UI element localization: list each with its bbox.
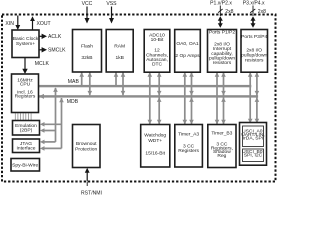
svg-text:P1.x/P2.x: P1.x/P2.x bbox=[210, 1, 232, 7]
pin XIN bbox=[5, 16, 20, 31]
svg-text:MCLK: MCLK bbox=[35, 61, 50, 67]
svg-text:RST/NMI: RST/NMI bbox=[81, 190, 102, 196]
svg-text:Watchdog: Watchdog bbox=[144, 132, 166, 138]
svg-text:(2BP): (2BP) bbox=[20, 128, 33, 134]
svg-text:VCC: VCC bbox=[82, 1, 93, 7]
svg-text:IrDA, SPI: IrDA, SPI bbox=[243, 136, 263, 142]
wire p3p4/usci-MDB column bbox=[256, 73, 258, 124]
svg-text:Flash: Flash bbox=[81, 44, 93, 50]
wire into jtag (from MAB) bbox=[44, 141, 56, 143]
wire ram-MDB bbox=[122, 73, 124, 96]
block Brownout Protection bbox=[73, 125, 101, 168]
svg-text:2x8: 2x8 bbox=[258, 9, 266, 15]
svg-text:resistors: resistors bbox=[213, 60, 232, 66]
MDB arrow into CPU bbox=[39, 94, 45, 99]
svg-text:2x8: 2x8 bbox=[225, 9, 233, 15]
svg-text:Interface: Interface bbox=[16, 146, 35, 152]
wire adc/wdt-MDB column bbox=[158, 73, 160, 125]
MDB bus bbox=[39, 95, 259, 97]
svg-text:SMCLK: SMCLK bbox=[48, 48, 66, 54]
block Basic Clock System+ bbox=[12, 30, 39, 58]
wire MCLK basic clock to CPU bbox=[24, 58, 26, 70]
wire into emulation (from MAB) bbox=[44, 130, 56, 132]
block Flash 32kB bbox=[73, 30, 102, 73]
svg-text:Registers: Registers bbox=[178, 148, 199, 154]
block Spy-Bi-Wire bbox=[11, 159, 40, 172]
svg-text:Protection: Protection bbox=[75, 146, 97, 152]
block USCI_B0 bbox=[243, 149, 264, 162]
svg-text:ACLK: ACLK bbox=[48, 34, 62, 40]
svg-text:DTC: DTC bbox=[152, 61, 163, 67]
block USCI bbox=[240, 123, 267, 166]
svg-text:XIN: XIN bbox=[5, 21, 14, 27]
svg-text:Ports P1/P2: Ports P1/P2 bbox=[209, 30, 235, 36]
svg-text:Basic Clock: Basic Clock bbox=[13, 36, 39, 42]
pin P1.x/P2.x (2x8) bbox=[210, 1, 234, 28]
pin VSS bbox=[106, 1, 117, 24]
svg-text:SPI, I2C: SPI, I2C bbox=[244, 153, 263, 159]
svg-text:15/16-Bit: 15/16-Bit bbox=[145, 151, 165, 157]
wire ram-MAB bbox=[115, 73, 117, 86]
wire oa/timerA3-MAB column bbox=[184, 73, 186, 125]
block Emulation (2BP) bbox=[13, 121, 40, 136]
chip boundary (dashed) bbox=[2, 15, 276, 182]
wire MDB to emulation/jtag (L2) bbox=[61, 98, 63, 148]
svg-text:VSS: VSS bbox=[106, 1, 117, 7]
svg-text:System+: System+ bbox=[16, 41, 35, 47]
svg-text:10-Bit: 10-Bit bbox=[151, 37, 164, 43]
svg-text:MDB: MDB bbox=[67, 99, 79, 105]
svg-text:1kB: 1kB bbox=[115, 55, 123, 61]
svg-text:pullup/down: pullup/down bbox=[241, 53, 267, 59]
block Ports P3/P4 bbox=[241, 30, 268, 73]
block Timer_A3 bbox=[175, 125, 203, 168]
wire into emulation (from MDB) bbox=[44, 123, 62, 125]
pin RST/NMI into brownout bbox=[81, 168, 102, 197]
svg-text:Timer_B3: Timer_B3 bbox=[211, 131, 232, 137]
svg-text:Timer_A3: Timer_A3 bbox=[178, 131, 199, 137]
svg-text:OA0, OA1: OA0, OA1 bbox=[176, 41, 199, 47]
svg-text:Ports P3/P4: Ports P3/P4 bbox=[241, 34, 267, 40]
MAB bus bbox=[39, 85, 252, 87]
block USCI_A0 bbox=[243, 126, 264, 147]
block Timer_B3 bbox=[208, 125, 236, 168]
svg-text:Reg: Reg bbox=[217, 153, 226, 159]
wire flash-MAB bbox=[81, 73, 83, 86]
wire into jtag (from MDB) bbox=[44, 147, 62, 149]
svg-text:XOUT: XOUT bbox=[37, 21, 51, 27]
svg-text:CPU: CPU bbox=[20, 82, 31, 88]
block Watchdog WDT+ bbox=[141, 125, 170, 168]
wire p3p4/usci-MAB column bbox=[249, 73, 251, 124]
wire p1p2/timerB3-MDB column bbox=[223, 73, 225, 125]
svg-text:Brownout: Brownout bbox=[76, 141, 97, 147]
block RAM 1kB bbox=[106, 30, 133, 73]
block CPU U1 bbox=[12, 74, 39, 113]
svg-text:32kB: 32kB bbox=[81, 55, 92, 61]
svg-text:resistors: resistors bbox=[245, 58, 264, 64]
svg-text:2x8 I/O: 2x8 I/O bbox=[246, 47, 262, 53]
block JTAG Interface bbox=[13, 139, 40, 153]
svg-text:RAM: RAM bbox=[114, 44, 125, 50]
wire flash-MDB bbox=[89, 73, 91, 96]
block OA0 OA1 op amps bbox=[175, 30, 201, 73]
svg-text:Registers: Registers bbox=[15, 94, 36, 100]
signal ACLK bbox=[39, 35, 43, 37]
svg-text:WDT+: WDT+ bbox=[148, 138, 162, 144]
block Ports P1/P2 bbox=[208, 30, 237, 73]
pin P3.x/P4.x (2x8) bbox=[243, 1, 266, 28]
CPU to emulation ribbon wires bbox=[15, 113, 31, 120]
svg-text:2 Op Amps: 2 Op Amps bbox=[175, 53, 200, 59]
wire oa/timerA3-MDB column bbox=[191, 73, 193, 125]
svg-text:MAB: MAB bbox=[68, 79, 80, 85]
wire p1p2/timerB3-MAB column bbox=[216, 73, 218, 125]
block ADC10 bbox=[144, 30, 170, 73]
wire MAB to emulation/jtag (L1) bbox=[55, 88, 57, 142]
signal SMCLK bbox=[39, 49, 43, 51]
pin VCC bbox=[82, 1, 93, 24]
pin XOUT bbox=[30, 16, 51, 29]
svg-text:P3.x/P4.x: P3.x/P4.x bbox=[243, 1, 265, 7]
wire adc/wdt-MAB column bbox=[149, 73, 151, 125]
svg-text:Spy-Bi-Wire: Spy-Bi-Wire bbox=[12, 162, 38, 168]
